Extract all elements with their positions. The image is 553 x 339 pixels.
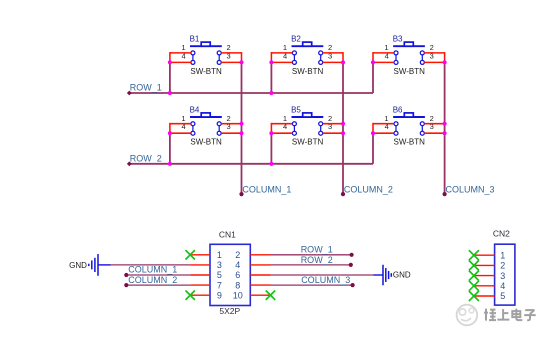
CN2 pin 3 stub — [474, 275, 495, 277]
svg-text:COLUMN_1: COLUMN_1 — [242, 184, 291, 194]
svg-text:B6: B6 — [393, 105, 403, 114]
CN1 pin 3 stub — [190, 264, 210, 266]
no-connect X on CN1 pin 10 — [266, 291, 275, 300]
wire left bracket B2 — [270, 52, 272, 62]
junction at B4 — [239, 122, 243, 126]
ground pin wire (right) — [374, 274, 384, 276]
wire: B1 pin4 to ROW_1 — [169, 62, 171, 93]
svg-text:1: 1 — [500, 250, 505, 260]
svg-text:1: 1 — [217, 250, 222, 260]
svg-text:COLUMN_2: COLUMN_2 — [344, 184, 393, 194]
switch contacts B6 — [395, 124, 397, 134]
wire pin3 B6 — [424, 132, 444, 134]
wire pin2 B2 — [323, 52, 343, 54]
pin wires of B6 — [373, 123, 445, 133]
push-button switch B3 — [384, 35, 433, 76]
connector CN1 body — [210, 244, 250, 305]
wire: B5 pin4 to ROW_2 — [270, 133, 272, 164]
junction at B3 — [371, 60, 375, 64]
svg-text:5X2P: 5X2P — [219, 306, 240, 316]
pin wires of B3 — [373, 52, 445, 62]
ground pin wire (left) — [98, 264, 111, 266]
wire: COLUMN_2 to CN1 pin 7 — [126, 284, 190, 286]
junction at B5 — [341, 131, 345, 135]
wire pin2 B5 — [323, 123, 343, 125]
end marker column 3 — [443, 192, 447, 196]
svg-text:ROW_2: ROW_2 — [130, 153, 162, 163]
wire: ROW_1 horizontal — [129, 92, 373, 94]
switch contacts B1 — [192, 53, 194, 63]
wire: COLUMN_1 to CN1 pin 5 — [126, 274, 190, 276]
switch contacts B4 — [192, 124, 194, 134]
junction: B1/ROW_1 — [168, 91, 172, 95]
end marker COLUMN_3 wire — [351, 283, 355, 287]
end marker COLUMN_2 wire — [124, 283, 128, 287]
wire pin1 B2 — [271, 52, 292, 54]
CN1 pin 4 stub — [250, 264, 270, 266]
junction: B4/ROW_2 — [168, 162, 172, 166]
wire pin2 B3 — [424, 52, 444, 54]
push-button switch B1 — [181, 35, 230, 76]
svg-text:SW-BTN: SW-BTN — [292, 138, 324, 147]
switch actuator symbol B5 — [292, 116, 324, 118]
wire: GND to CN1 pin 3 — [111, 264, 191, 266]
switch contacts B3 — [395, 53, 397, 63]
wire: B3 pin4 to ROW_1 — [372, 62, 374, 93]
junction at B1 — [239, 60, 243, 64]
junction at B6 — [443, 122, 447, 126]
junction at B6 — [443, 131, 447, 135]
wire pin1 B4 — [170, 123, 191, 125]
switch actuator symbol B2 — [292, 45, 324, 47]
CN1 pin 7 stub — [190, 284, 210, 286]
svg-text:4: 4 — [500, 281, 505, 291]
svg-text:COLUMN_1: COLUMN_1 — [128, 265, 177, 275]
wire pin1 B3 — [373, 52, 394, 54]
junction at B2 — [269, 60, 273, 64]
wire: CN1 pin 6 to GND right — [271, 274, 374, 276]
svg-text:ROW_2: ROW_2 — [301, 255, 333, 265]
wire pin1 B5 — [271, 123, 292, 125]
wire pin2 B6 — [424, 123, 444, 125]
CN2 pin 1 stub — [474, 254, 495, 256]
ground bars (left) — [88, 264, 90, 266]
wire pin2 B4 — [221, 123, 241, 125]
CN1 pin 9 stub — [190, 294, 210, 296]
junction at B4 — [168, 131, 172, 135]
wire pin3 B4 — [221, 132, 241, 134]
svg-text:5: 5 — [500, 291, 505, 301]
junction at B5 — [269, 131, 273, 135]
pin wires of B4 — [170, 123, 242, 133]
svg-text:2: 2 — [235, 250, 240, 260]
junction: B2/ROW_1 — [269, 91, 273, 95]
wire: B6 pin4 to ROW_2 — [372, 133, 374, 164]
end marker ROW_2 left — [127, 161, 132, 166]
CN1 pin 2 stub — [250, 254, 270, 256]
wire: ROW_2 horizontal — [129, 163, 373, 165]
end marker column 2 — [341, 192, 345, 196]
svg-text:SW-BTN: SW-BTN — [393, 67, 425, 76]
wire: column bus 1 vertical — [241, 62, 243, 193]
wire: CN1 pin 2 ROW_1 — [271, 254, 352, 256]
svg-text:CN2: CN2 — [493, 229, 510, 239]
wire pin3 B3 — [424, 61, 444, 63]
wire right bracket B2 — [342, 52, 344, 62]
CN1 pin 8 stub — [250, 284, 270, 286]
CN1 pin 1 stub — [190, 254, 210, 256]
svg-text:SW-BTN: SW-BTN — [190, 138, 222, 147]
svg-text:B4: B4 — [190, 105, 200, 114]
CN2 pin 2 stub — [474, 264, 495, 266]
wire: B4 pin4 to ROW_2 — [169, 133, 171, 164]
push-button switch B6 — [384, 105, 433, 146]
junction at B1 — [168, 60, 172, 64]
wire pin3 B5 — [323, 132, 343, 134]
svg-text:SW-BTN: SW-BTN — [393, 138, 425, 147]
switch contacts B5 — [293, 124, 295, 134]
no-connect X on CN2 pin 5 — [469, 291, 479, 301]
no-connect X on CN2 pin 3 — [469, 271, 479, 281]
junction at B2 — [341, 60, 345, 64]
end marker COLUMN_1 wire — [124, 273, 128, 277]
watermark logo circle — [457, 305, 478, 326]
svg-text:3: 3 — [217, 260, 222, 270]
svg-text:CN1: CN1 — [219, 229, 236, 239]
wire left bracket B5 — [270, 123, 272, 133]
svg-text:2: 2 — [500, 261, 505, 271]
junction at B3 — [443, 60, 447, 64]
svg-text:SW-BTN: SW-BTN — [190, 67, 222, 76]
svg-text:4: 4 — [235, 260, 240, 270]
no-connect X on CN1 pin 9 — [186, 291, 195, 300]
ground symbol GND (left) — [69, 254, 110, 276]
svg-text:3: 3 — [500, 271, 505, 281]
pin wires of B2 — [271, 52, 343, 62]
CN1 pin 5 stub — [190, 274, 210, 276]
switch actuator symbol B6 — [393, 116, 425, 118]
svg-text:B2: B2 — [291, 35, 301, 44]
wire pin3 B1 — [221, 61, 241, 63]
push-button switch B2 — [283, 35, 332, 76]
switch actuator symbol B4 — [190, 116, 222, 118]
wire right bracket B1 — [241, 52, 243, 62]
push-button switch B4 — [181, 105, 230, 146]
wire pin1 B6 — [373, 123, 394, 125]
switch actuator symbol B1 — [190, 45, 222, 47]
push-button switch B5 — [283, 105, 332, 146]
svg-text:COLUMN_2: COLUMN_2 — [128, 275, 177, 285]
svg-text:7: 7 — [217, 280, 222, 290]
wire right bracket B3 — [444, 52, 446, 62]
svg-text:ROW_1: ROW_1 — [130, 83, 162, 93]
watermark text (stylized CJK strokes) — [484, 309, 536, 321]
svg-text:SW-BTN: SW-BTN — [292, 67, 324, 76]
wire pin3 B2 — [323, 61, 343, 63]
wire: B2 pin4 to ROW_1 — [270, 62, 272, 93]
CN2 pin 4 stub — [474, 285, 495, 287]
wire pin4 B1 — [170, 61, 191, 63]
ground bars (right) — [382, 265, 384, 286]
switch actuator symbol B3 — [393, 45, 425, 47]
svg-text:B3: B3 — [393, 35, 403, 44]
junction at B5 — [341, 122, 345, 126]
wire pin4 B3 — [373, 61, 394, 63]
no-connect X on CN2 pin 4 — [469, 281, 479, 291]
no-connect X on CN2 pin 2 — [469, 260, 479, 270]
wire pin2 B1 — [221, 52, 241, 54]
end marker ROW_1 left — [127, 91, 132, 96]
svg-text:8: 8 — [235, 280, 240, 290]
svg-text:9: 9 — [217, 290, 222, 300]
svg-text:B1: B1 — [190, 35, 200, 44]
ground symbol GND (right) — [374, 265, 411, 286]
wire pin4 B4 — [170, 132, 191, 134]
CN1 pin 6 stub — [250, 274, 270, 276]
svg-text:6: 6 — [235, 270, 240, 280]
wire: column bus 2 vertical — [342, 62, 344, 193]
svg-text:B5: B5 — [291, 105, 301, 114]
wire left bracket B3 — [372, 52, 374, 62]
wire: CN1 pin 8 COLUMN_3 — [271, 284, 353, 286]
junction: B5/ROW_2 — [269, 162, 273, 166]
no-connect X on CN1 pin 1 — [186, 250, 195, 259]
end marker column 1 — [239, 192, 243, 196]
CN1 pin 10 stub — [250, 294, 270, 296]
wire: CN1 pin 4 ROW_2 — [271, 264, 351, 266]
svg-text:GND: GND — [69, 261, 87, 270]
pin wires of B5 — [271, 123, 343, 133]
pin wires of B1 — [170, 52, 242, 62]
wire left bracket B6 — [372, 123, 374, 133]
CN2 pin 5 stub — [474, 295, 495, 297]
wire left bracket B1 — [169, 52, 171, 62]
switch contacts B2 — [293, 53, 295, 63]
wire pin4 B2 — [271, 61, 292, 63]
wire pin4 B5 — [271, 132, 292, 134]
wire left bracket B4 — [169, 123, 171, 133]
junction at B6 — [371, 131, 375, 135]
wire: column bus 3 vertical — [444, 62, 446, 193]
connector CN2 body — [495, 244, 515, 305]
svg-text:COLUMN_3: COLUMN_3 — [301, 275, 350, 285]
no-connect X on CN2 pin 1 — [469, 250, 479, 260]
end marker ROW_1 wire — [350, 253, 354, 257]
svg-text:5: 5 — [217, 270, 222, 280]
wire pin4 B6 — [373, 132, 394, 134]
svg-text:COLUMN_3: COLUMN_3 — [446, 184, 495, 194]
svg-text:ROW_1: ROW_1 — [301, 245, 333, 255]
end marker ROW_2 wire — [349, 263, 353, 267]
svg-text:10: 10 — [233, 290, 243, 300]
wire pin1 B1 — [170, 52, 191, 54]
svg-text:GND: GND — [393, 271, 411, 280]
junction at B4 — [239, 131, 243, 135]
